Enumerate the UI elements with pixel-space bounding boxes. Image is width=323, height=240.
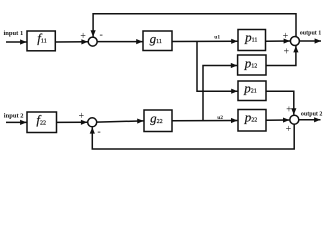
svg-text:output 1: output 1: [300, 31, 322, 37]
svg-text:-: -: [97, 126, 100, 137]
svg-text:+: +: [286, 124, 292, 135]
svg-text:+: +: [78, 111, 84, 122]
svg-text:input 1: input 1: [4, 30, 24, 37]
svg-text:+: +: [80, 31, 86, 42]
svg-text:u2: u2: [217, 115, 223, 121]
svg-text:+: +: [283, 46, 289, 57]
svg-text:+: +: [286, 104, 292, 115]
svg-text:+: +: [283, 31, 289, 42]
svg-text:u1: u1: [214, 34, 220, 40]
svg-text:input 2: input 2: [4, 112, 24, 119]
svg-text:output 2: output 2: [301, 111, 323, 117]
svg-text:-: -: [100, 29, 103, 40]
